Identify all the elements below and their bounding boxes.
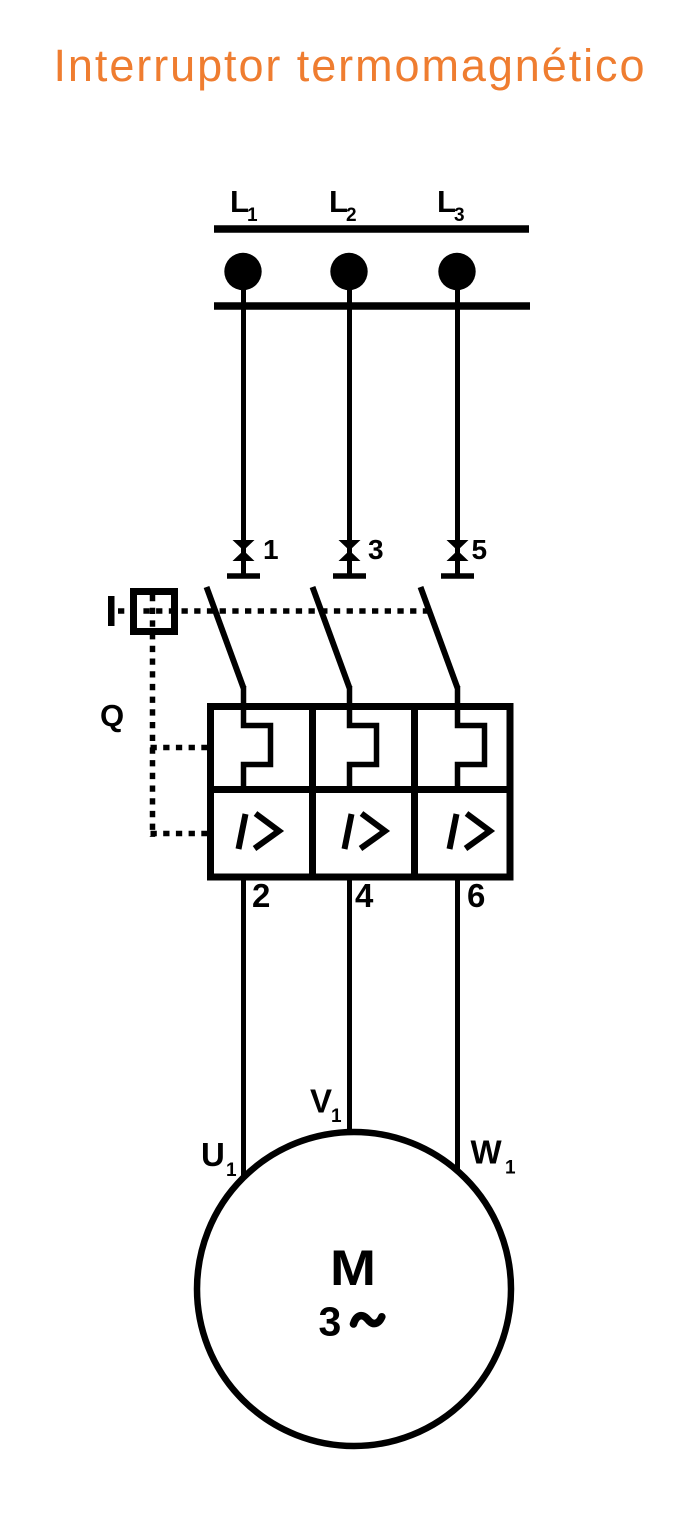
- svg-text:1: 1: [331, 1106, 342, 1127]
- svg-text:2: 2: [346, 205, 357, 226]
- svg-text:M: M: [330, 1240, 376, 1296]
- svg-text:1: 1: [226, 1160, 237, 1181]
- svg-text:2: 2: [252, 877, 270, 914]
- svg-text:Q: Q: [100, 698, 124, 733]
- svg-text:U: U: [201, 1136, 225, 1173]
- svg-text:3: 3: [319, 1299, 342, 1345]
- svg-text:4: 4: [355, 877, 374, 914]
- svg-text:1: 1: [505, 1158, 516, 1179]
- svg-text:5: 5: [472, 534, 488, 565]
- svg-text:1: 1: [247, 205, 258, 226]
- svg-text:1: 1: [263, 534, 279, 565]
- svg-text:6: 6: [467, 877, 485, 914]
- svg-text:3: 3: [454, 205, 465, 226]
- svg-text:Interruptor termomagnético: Interruptor termomagnético: [54, 40, 645, 91]
- svg-text:W: W: [471, 1134, 503, 1171]
- svg-text:3: 3: [368, 534, 384, 565]
- svg-text:V: V: [310, 1083, 332, 1120]
